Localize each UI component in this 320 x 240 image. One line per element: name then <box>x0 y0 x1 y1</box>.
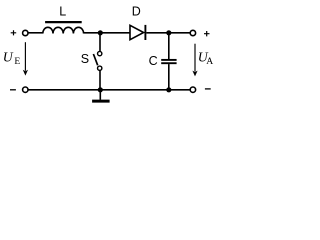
minus sign right <box>205 88 211 90</box>
terminal bottom-left <box>23 87 28 92</box>
terminal top-right <box>190 30 195 35</box>
diode D cathode bar <box>144 25 146 40</box>
wire capacitor vertical upper <box>168 33 170 59</box>
inductor L core bar <box>45 21 82 23</box>
plus sign right <box>204 31 210 36</box>
svg-text:D: D <box>132 5 141 19</box>
switch S bottom contact <box>98 66 102 70</box>
node junction dot at capacitor top <box>166 30 171 35</box>
svg-text:C: C <box>149 54 158 68</box>
svg-text:U: U <box>3 50 14 65</box>
arrow UE head <box>23 70 28 76</box>
switch S top contact <box>98 51 102 55</box>
ground bar <box>92 100 110 103</box>
svg-text:A: A <box>206 56 213 67</box>
node junction dot at capacitor bottom <box>166 87 171 92</box>
svg-text:S: S <box>81 52 89 66</box>
svg-text:L: L <box>59 5 66 19</box>
diode D triangle <box>130 25 144 39</box>
wire top rail left segment <box>28 32 43 34</box>
arrow UE line <box>24 42 26 71</box>
node junction dot at switch bottom <box>98 87 103 92</box>
wire top rail right segment <box>146 32 190 34</box>
node junction dot at switch top <box>98 30 103 35</box>
minus sign left <box>10 89 16 91</box>
svg-text:E: E <box>14 56 20 67</box>
wire switch vertical lower <box>99 71 101 90</box>
capacitor C bottom plate <box>161 62 176 64</box>
plus sign left <box>11 30 17 35</box>
wire top rail middle segment <box>84 32 131 34</box>
terminal top-left <box>23 30 28 35</box>
terminal bottom-right <box>190 87 195 92</box>
wire capacitor vertical lower <box>168 64 170 90</box>
wire bottom rail <box>28 89 191 91</box>
arrow UA head <box>192 71 197 77</box>
inductor L coil <box>43 27 84 33</box>
wire switch vertical upper <box>99 33 101 51</box>
capacitor C top plate <box>161 59 176 61</box>
arrow UA line <box>194 44 196 72</box>
switch S blade <box>93 54 97 65</box>
ground stub wire <box>99 90 101 100</box>
